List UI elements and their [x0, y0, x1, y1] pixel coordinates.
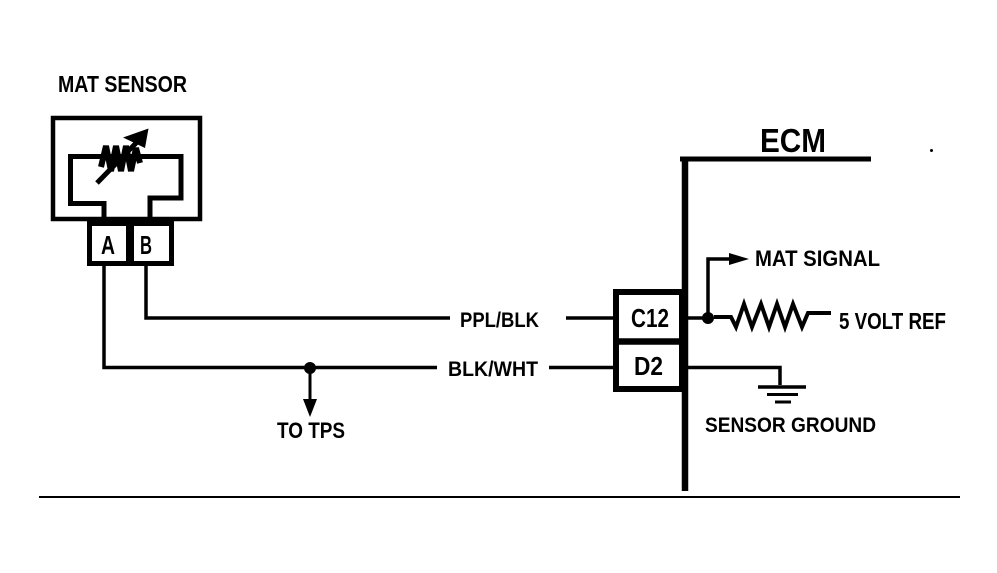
wire pin A to BLK/WHT: [104, 265, 437, 368]
node junction at C12: [702, 312, 714, 324]
svg-text:SENSOR GROUND: SENSOR GROUND: [705, 414, 876, 437]
svg-text:5 VOLT REF: 5 VOLT REF: [839, 308, 946, 334]
svg-text:B: B: [140, 230, 152, 260]
bottom rule: [39, 496, 960, 498]
wire BLK/WHT to connector D2: [549, 366, 614, 370]
thermistor arrow: [97, 140, 139, 183]
svg-text:BLK/WHT: BLK/WHT: [448, 358, 538, 381]
MAT sensor outer case: [53, 118, 200, 219]
svg-text:PPL/BLK: PPL/BLK: [460, 309, 539, 332]
ECM boundary line: [682, 157, 689, 491]
wire pin B to PPL/BLK: [146, 265, 450, 318]
svg-text:D2: D2: [634, 351, 663, 381]
svg-text:MAT SENSOR: MAT SENSOR: [58, 71, 187, 97]
wire D2 to ground: [687, 368, 780, 386]
svg-text:MAT SIGNAL: MAT SIGNAL: [755, 246, 880, 271]
svg-text:TO TPS: TO TPS: [277, 418, 345, 443]
connector divider line: [613, 338, 685, 345]
speck artifact: [930, 149, 933, 152]
pin B: [132, 224, 172, 264]
wire C12 to node: [687, 316, 704, 320]
svg-text:C12: C12: [631, 303, 669, 333]
pin A: [90, 224, 129, 264]
svg-text:ECM: ECM: [760, 122, 826, 159]
connector block outline: [616, 292, 682, 389]
thermistor resistor element: [101, 146, 140, 171]
junction node to TPS: [304, 362, 316, 374]
MAT SIGNAL arrow: [708, 259, 730, 314]
thermistor body outline: [71, 157, 182, 222]
svg-text:A: A: [101, 230, 115, 260]
wire PPL/BLK to connector C12: [566, 316, 614, 320]
resistor 5 volt pull-up: [714, 304, 831, 327]
ground symbol: [758, 385, 806, 389]
ECM top line: [680, 157, 871, 162]
arrow to TPS: [309, 372, 312, 402]
